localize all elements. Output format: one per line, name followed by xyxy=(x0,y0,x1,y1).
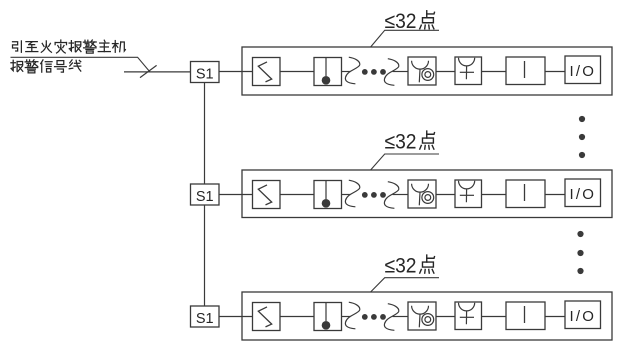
wire (row 2) xyxy=(482,194,507,196)
module S1 (row 1) xyxy=(191,62,220,83)
wire (row 3) xyxy=(342,316,351,318)
wire: incoming alarm signal line xyxy=(124,71,190,73)
wire (row 2) xyxy=(436,194,455,196)
enclosure rectangle (row 3) xyxy=(242,292,612,340)
wire (row 3) xyxy=(393,316,409,318)
detector D2 line-dot (row 3) xyxy=(314,303,342,331)
wire S1 to enclosure (row 3) xyxy=(219,316,253,318)
label &#8804;32&#28857; (row 2) xyxy=(385,131,435,154)
wire S1 to enclosure (row 2) xyxy=(219,194,253,196)
svg-text:≤32: ≤32 xyxy=(385,131,417,154)
label text line 2: 报警信号线 xyxy=(11,60,81,73)
label leader (row 2) xyxy=(371,154,439,170)
slash mark on wire xyxy=(140,65,157,77)
I/O module (row 1) xyxy=(565,56,601,84)
detector mercury symbol (row 1) xyxy=(455,57,482,85)
svg-text:≤32: ≤32 xyxy=(385,255,417,278)
I/O module (row 2) xyxy=(565,179,601,207)
leader line xyxy=(11,57,151,72)
wire (row 1) xyxy=(393,71,409,73)
detector mercury symbol (row 3) xyxy=(455,302,482,330)
wire (row 2) xyxy=(393,194,409,196)
detector D2 line-dot (row 1) xyxy=(314,58,342,86)
detector D1 zigzag (row 2) xyxy=(253,181,281,209)
ellipsis dots (row 3) xyxy=(362,314,386,320)
wire (row 3) xyxy=(482,316,507,318)
label &#8804;32&#28857; (row 1) xyxy=(385,10,435,33)
break squiggle left (row 2) xyxy=(345,180,359,207)
ellipsis dots (row 1) xyxy=(362,69,386,75)
label leader (row 3) xyxy=(371,278,439,292)
label text line 1: 引至火灾报警主机 xyxy=(13,40,126,53)
wire (row 1) xyxy=(482,71,507,73)
module S1 (row 2) xyxy=(191,184,220,205)
break squiggle right (row 2) xyxy=(384,182,398,209)
trunk wire between S1 modules xyxy=(204,82,206,184)
ellipsis dots (row 2) xyxy=(362,192,386,198)
break squiggle right (row 1) xyxy=(384,59,398,86)
wire (row 3) xyxy=(545,316,565,318)
wire (row 3) xyxy=(280,316,314,318)
detector mercury symbol (row 2) xyxy=(455,180,482,208)
enclosure rectangle (row 1) xyxy=(242,47,612,95)
detector D1 zigzag (row 3) xyxy=(253,303,281,331)
wire (row 1) xyxy=(436,71,455,73)
svg-text:I/O: I/O xyxy=(569,308,596,325)
module vertical-bar (row 1) xyxy=(506,57,545,85)
module vertical-bar (row 3) xyxy=(506,302,545,330)
I/O module (row 3) xyxy=(565,301,601,329)
wire (row 2) xyxy=(280,194,314,196)
module vertical-bar (row 2) xyxy=(506,180,545,208)
continuation dots between row1 and row2 xyxy=(579,116,585,158)
enclosure rectangle (row 2) xyxy=(242,170,612,218)
wire (row 2) xyxy=(342,194,351,196)
detector D1 zigzag (row 1) xyxy=(253,58,281,86)
sounder cup+circle (row 3) xyxy=(408,302,436,330)
wire (row 1) xyxy=(280,71,314,73)
module S1 (row 3) xyxy=(191,306,220,327)
detector D2 line-dot (row 2) xyxy=(314,181,342,209)
sounder cup+circle (row 1) xyxy=(408,57,436,85)
svg-text:I/O: I/O xyxy=(569,63,596,80)
break squiggle left (row 1) xyxy=(345,57,359,84)
wire (row 1) xyxy=(545,71,565,73)
break squiggle left (row 3) xyxy=(345,302,359,329)
wire (row 3) xyxy=(436,316,455,318)
wire (row 2) xyxy=(545,194,565,196)
svg-text:I/O: I/O xyxy=(569,186,596,203)
wire S1 to enclosure (row 1) xyxy=(219,71,253,73)
continuation dots between row2 and row3 xyxy=(577,231,583,274)
break squiggle right (row 3) xyxy=(384,304,398,331)
svg-text:S1: S1 xyxy=(196,311,214,327)
label leader (row 1) xyxy=(371,30,439,47)
svg-text:S1: S1 xyxy=(196,66,214,82)
sounder cup+circle (row 2) xyxy=(408,180,436,208)
svg-text:S1: S1 xyxy=(196,189,214,205)
label &#8804;32&#28857; (row 3) xyxy=(385,255,435,278)
wire (row 1) xyxy=(342,71,351,73)
